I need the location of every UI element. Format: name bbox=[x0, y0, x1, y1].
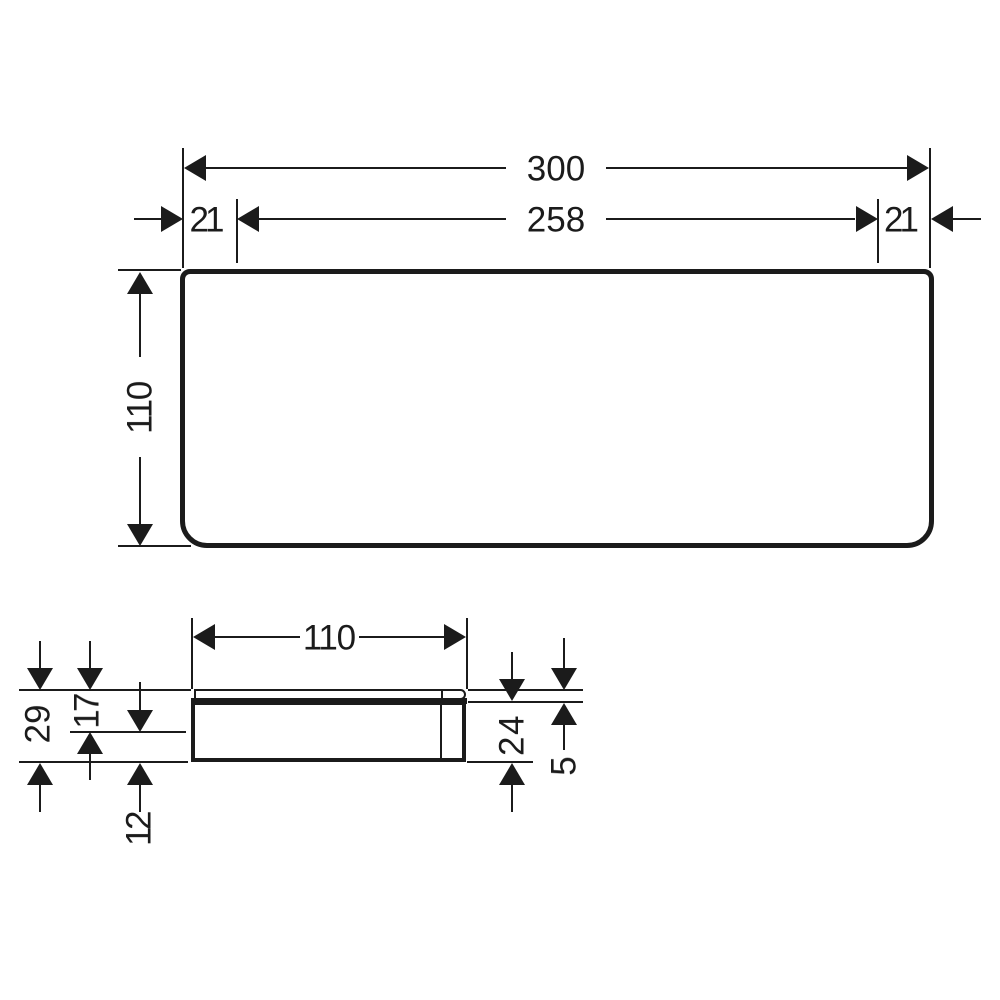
dim 29 arrow up bbox=[27, 763, 53, 785]
dim 5 upper line bbox=[563, 638, 565, 668]
dim 29 upper line bbox=[39, 641, 41, 668]
dim 300 line right bbox=[606, 167, 908, 169]
dim 110 top extension line bbox=[118, 269, 181, 271]
side view strip divider bbox=[441, 691, 443, 699]
dim 21 left tail line bbox=[134, 218, 162, 220]
dim 29 arrow down bbox=[27, 668, 53, 690]
dim 29 lower line bbox=[39, 785, 41, 812]
dim 110b arrow left bbox=[193, 624, 215, 650]
dim 110 bottom extension line bbox=[118, 545, 191, 547]
dim 5 lower line bbox=[563, 725, 565, 750]
dim 300 line left bbox=[206, 167, 506, 169]
extension line 258-right (x=877.5) bbox=[877, 199, 879, 263]
side view body inner line bbox=[440, 704, 442, 758]
dim 24 lower line bbox=[511, 785, 513, 812]
dim 258 arrow left bbox=[237, 206, 259, 232]
dim 24 label bbox=[495, 714, 530, 756]
ref line right lower (y=701.8) bbox=[468, 701, 583, 703]
ref line mid (y=731.8) bbox=[70, 731, 186, 733]
extension line 258-left (x=236.5) bbox=[236, 199, 238, 263]
dim 12 upper line bbox=[139, 682, 141, 710]
dim 110b line left bbox=[215, 636, 300, 638]
dim 12 lower line bbox=[139, 785, 141, 812]
dim 12 label bbox=[122, 814, 157, 846]
dim 24 arrow up bbox=[499, 763, 525, 785]
dim 110 arrow up bbox=[127, 272, 153, 294]
dim 17 arrow down bbox=[77, 668, 103, 690]
dim 258 label bbox=[527, 203, 585, 238]
dim 29 label bbox=[20, 705, 55, 744]
extension line right (x=930) bbox=[929, 148, 931, 268]
extension line left (x=183) bbox=[182, 148, 184, 268]
ref line right upper (y=690.4) bbox=[468, 689, 583, 691]
dim 110 line lower bbox=[139, 457, 141, 524]
dim 17 upper line bbox=[89, 641, 91, 668]
dim 17 lower line bbox=[89, 754, 91, 780]
dim 21 right outside arrow bbox=[931, 206, 953, 232]
dim 21 right label bbox=[884, 202, 915, 237]
dim 110b right extension line bbox=[466, 618, 468, 689]
dim 110b line right bbox=[359, 636, 444, 638]
dim 5 label bbox=[547, 756, 582, 775]
dim 300 arrow right bbox=[907, 155, 929, 181]
dim 24 arrow down bbox=[499, 679, 525, 701]
dim 12 arrow down bbox=[127, 710, 153, 732]
dim 5 arrow down bbox=[551, 668, 577, 690]
dim 110b label bbox=[303, 621, 355, 656]
ref line bottom (y=762.4) bbox=[19, 761, 188, 763]
dim 17 label bbox=[69, 695, 104, 729]
dim 258 arrow right bbox=[856, 206, 878, 232]
dim 24 upper line bbox=[511, 652, 513, 679]
side view glass strip bbox=[194, 689, 466, 700]
dim 300 label bbox=[527, 152, 585, 187]
ref line top (y=690) bbox=[19, 689, 191, 691]
dim 17 arrow up bbox=[77, 732, 103, 754]
side view body outline bbox=[191, 701, 466, 763]
dim 258 line right bbox=[606, 218, 855, 220]
dim 110 label bbox=[122, 382, 157, 434]
front view shelf outline bbox=[180, 269, 934, 548]
dim 21 right tail line bbox=[953, 218, 981, 220]
dim 258 line left bbox=[259, 218, 506, 220]
dim 21 left outside arrow bbox=[161, 206, 183, 232]
dim 5 arrow up bbox=[551, 703, 577, 725]
dim 110 arrow down bbox=[127, 524, 153, 546]
side view thick bar (strip bottom / body top) bbox=[191, 698, 468, 705]
dim 12 arrow up bbox=[127, 763, 153, 785]
dim 110b arrow right bbox=[444, 624, 466, 650]
ref line right bottom ext (y=762.4) bbox=[467, 761, 533, 763]
dim 110b left extension line bbox=[191, 618, 193, 689]
dim 110 line upper bbox=[139, 294, 141, 358]
dim 21 left label bbox=[190, 202, 221, 237]
dim 300 arrow left bbox=[184, 155, 206, 181]
